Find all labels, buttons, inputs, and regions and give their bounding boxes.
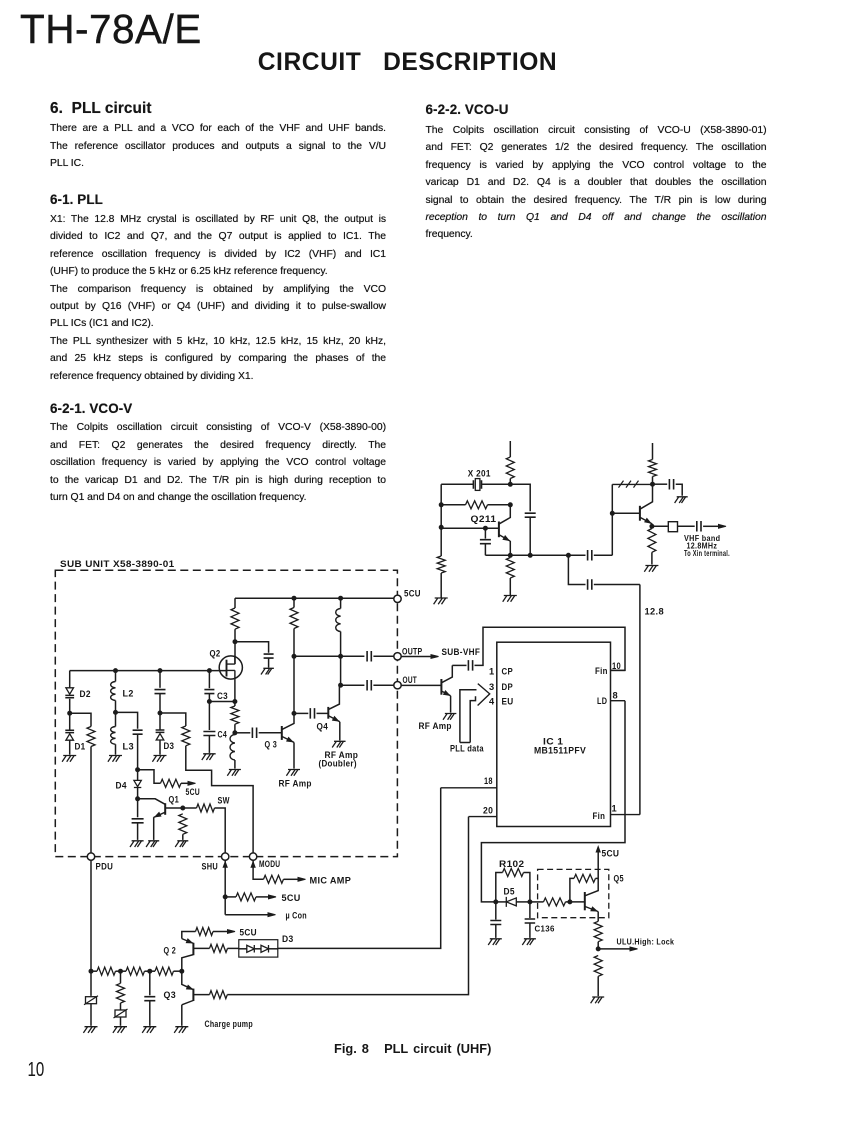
junction left rail / base wire: [439, 525, 443, 529]
wire: resistor to node A: [509, 479, 511, 485]
svg-text:OUT: OUT: [403, 675, 418, 685]
wire: cap C211 to emitter rail: [484, 544, 486, 556]
arrowhead MIC AMP: [298, 877, 306, 881]
svg-text:C136: C136: [535, 924, 556, 933]
wire: node N to R15: [120, 971, 122, 983]
wire: source to R6: [234, 702, 236, 707]
junction emitter rail / Q211: [508, 553, 512, 557]
ground (C1): [261, 668, 274, 674]
wire: emitter resistor to ground: [509, 578, 511, 595]
resistor R102: [503, 869, 524, 877]
svg-text:4: 4: [489, 696, 495, 706]
svg-text:OUTP: OUTP: [402, 646, 423, 656]
wire: C6 to ground: [137, 823, 139, 840]
pin 20 stub: [469, 816, 497, 818]
wire: Q1 emitter to ground: [153, 817, 155, 840]
diode D3a: [247, 945, 255, 953]
wire: Q2 source lead: [234, 679, 236, 701]
wire: node B to C215: [653, 483, 668, 485]
resistor R12 (loop filter): [97, 967, 115, 975]
svg-text:D4: D4: [116, 780, 128, 790]
ground (TC1): [83, 1027, 97, 1033]
junction Q5 base node: [568, 900, 572, 904]
wire: C7 to Q3 base: [259, 732, 282, 734]
wire: base node to cap C211: [484, 528, 486, 538]
wire: node H to D3: [159, 713, 161, 730]
junction feedback / collector line: [508, 503, 512, 507]
junction Q212 emitter node: [650, 524, 654, 528]
wire: node G to Q1 collector: [138, 799, 165, 804]
wire: emitter to filter bead: [652, 525, 668, 527]
wire: node F to 5CU pullup: [138, 770, 161, 784]
wire: C1 to ground: [268, 658, 270, 667]
wire: pin 18 to charge pump D3 line: [278, 788, 441, 949]
wire: R15 to TC2: [120, 1003, 122, 1010]
wire: 12.8 net vertical to IC1 Fin pin 1: [639, 585, 641, 815]
ground (Q4 emitter): [332, 741, 345, 747]
svg-text:5CU: 5CU: [240, 927, 257, 937]
wire: C9 to OUTP terminal: [373, 655, 393, 657]
wire: D4 to node G: [137, 788, 139, 799]
svg-text:L3: L3: [123, 742, 135, 752]
resistor R213 (Q211 emitter): [506, 558, 514, 579]
svg-text:D3: D3: [164, 741, 175, 751]
resistor R7 (Q3 collector load): [290, 608, 298, 629]
svg-text:To Xin terminal.: To Xin terminal.: [684, 549, 730, 558]
junction base leg / base wire: [610, 511, 614, 515]
junction Q3 collector node: [292, 711, 296, 715]
resistor R212 (X201 feedback): [466, 501, 488, 509]
transistor Q3 emitter: [282, 736, 294, 742]
svg-text:X 201: X 201: [468, 469, 491, 479]
resistor R16 (Q2cp emitter): [196, 928, 214, 936]
wire: R214 to node B: [652, 477, 654, 485]
arrowhead lock output: [630, 947, 638, 951]
transistor Q211 emitter: [499, 535, 510, 542]
transistor Q3 (charge pump) base bar: [192, 989, 194, 1001]
wire: pin 20 to charge pump Q3 line: [227, 817, 468, 995]
wire: Q6 emitter to ground: [450, 696, 452, 713]
wire: node K to C136: [529, 902, 531, 918]
svg-text:20: 20: [483, 805, 493, 815]
resistor R9 (Q5 feedback): [574, 874, 595, 882]
capacitor C4 (source bypass): [203, 732, 215, 736]
node P junction (charge pump out): [180, 969, 184, 973]
wire: Q212 collector lead: [640, 484, 653, 509]
wire: bead to C216: [678, 525, 695, 527]
resistor R3 (to 5CU): [161, 779, 182, 787]
wire: Q212 emitter lead: [651, 524, 653, 527]
capacitor C211 (base bypass): [480, 540, 491, 544]
wire: OUTP to SUB-VHF arrow: [401, 656, 431, 658]
capacitor C215 (collector bypass): [669, 479, 673, 490]
trimmer capacitor TC2: [115, 1010, 126, 1017]
capacitor C10 (OUT coupling): [367, 680, 371, 691]
wire: R20 to arrow: [284, 878, 299, 880]
svg-text:Q211: Q211: [471, 514, 497, 524]
wire: PLL data line DP: [460, 690, 477, 743]
wire: R10 to node L: [597, 942, 599, 949]
capacitor C5 (T/R switch series cap): [133, 730, 143, 734]
svg-text:Q 2: Q 2: [164, 945, 177, 955]
transistor Q1 base bar: [164, 803, 166, 815]
wire: C213 to Q212 base leg: [594, 554, 613, 556]
wire: R16 to 5CU arrow: [213, 931, 228, 933]
terminal PDU: [87, 853, 94, 860]
junction 5CU rail / OUTP branch: [292, 596, 296, 600]
wire: node H to mod resistor: [160, 713, 186, 726]
sub unit X58-3890-01 dashed enclosure: [55, 570, 397, 856]
resistor R211a body: [506, 457, 514, 478]
wire: C215 to ground leg: [676, 484, 683, 496]
svg-text:(Doubler): (Doubler): [319, 759, 357, 769]
wire: OUTP row: [294, 655, 364, 657]
wire: L4 to ground: [234, 760, 236, 769]
wire: VCO 5CU rail: [235, 597, 394, 599]
resistor R216 (Q212 emitter): [648, 529, 656, 553]
Q2cp emitter arrow (PNP): [186, 939, 192, 943]
wire: base node to SW resistor: [183, 807, 197, 809]
wire: node A to bypass cap branch: [510, 484, 530, 511]
wire: R17 to D3 box: [228, 947, 239, 949]
resistor R20 (MODU to MIC AMP): [264, 875, 284, 883]
Q1 emitter arrow: [155, 813, 161, 817]
wire: node P to Q3 emitter leg: [182, 971, 193, 989]
wire: down leg to C214 row: [568, 555, 585, 584]
capacitor C11 (coupling to Fin): [468, 660, 472, 671]
wire: gate rail to C2: [159, 671, 161, 688]
pin 1 stub to 12.8 net: [611, 814, 640, 816]
arrow into MODU terminal: [251, 862, 255, 868]
wire: R11 to ground: [597, 976, 599, 996]
Q4 emitter arrow: [333, 717, 339, 721]
capacitor C12 (lock filter): [490, 921, 501, 925]
junction 5CU rail / choke branch: [339, 596, 343, 600]
svg-text:SUB-VHF: SUB-VHF: [442, 647, 481, 657]
Q3cp emitter arrow (PNP): [187, 985, 193, 989]
junction base / cap C211: [483, 526, 487, 530]
wire: Q5 emitter lead: [597, 912, 599, 922]
page title TH-78A/E: [20, 6, 202, 53]
wire: Q211 emitter lead: [509, 541, 511, 555]
transistor Q2 (FET, VCO oscillator): [219, 656, 242, 679]
Q211 emitter arrow: [503, 536, 509, 541]
inductor L4 (source choke): [230, 735, 235, 761]
terminal OUT: [394, 682, 401, 689]
capacitor C216 (output coupling): [697, 521, 701, 532]
transistor Q5 base bar: [584, 892, 586, 910]
wire: oscillator left rail: [440, 484, 442, 556]
terminal SHU: [222, 853, 229, 860]
transistor Q4 emitter: [328, 716, 340, 722]
wire: R8 to Q5 base: [566, 901, 585, 903]
wire: D5 to node K: [516, 901, 530, 903]
node F junction (D4 anode): [136, 768, 140, 772]
diode D4 (band switch): [134, 780, 141, 787]
wire: Q3 emitter to ground: [293, 742, 295, 768]
svg-text:D1: D1: [75, 742, 86, 752]
svg-text:Q1: Q1: [169, 795, 180, 805]
wire: gate rail to L2: [115, 671, 117, 682]
wire: C136 to ground: [529, 923, 531, 938]
ferrite bead L212 (output filter): [668, 522, 677, 532]
arrow up to 5CU (Q5 collector): [596, 847, 600, 853]
node N junction: [119, 969, 123, 973]
wire: D3 internal lead 3: [269, 948, 278, 950]
inductor L5 (collector choke): [336, 609, 341, 632]
dual diode D3 enclosure: [239, 940, 278, 957]
wire: Q3cp base wire: [193, 994, 209, 996]
wire: Q211 emitter rail: [485, 554, 568, 556]
wire: OUT to RF amp base: [401, 684, 441, 686]
varicap diode D1: [65, 730, 74, 732]
wire: node I to C7: [235, 732, 250, 734]
svg-text:3: 3: [489, 682, 495, 692]
wire: C12 to ground: [495, 925, 497, 938]
svg-text:Q2: Q2: [210, 648, 221, 658]
svg-text:MODU: MODU: [259, 859, 280, 869]
wire: node K to R8: [530, 901, 544, 903]
resistor R6 (Q2 source): [231, 706, 239, 724]
svg-text:18: 18: [484, 776, 493, 786]
svg-text:8: 8: [613, 691, 619, 701]
wire: C10 to OUT terminal: [373, 684, 393, 686]
arrow to 5CU (VCO switch): [188, 781, 196, 785]
wire: PLL data bottom join: [460, 742, 470, 744]
ground (D1): [62, 756, 76, 762]
wire: PLL data line EU: [470, 696, 475, 742]
diode D3b: [261, 945, 269, 953]
svg-text:PDU: PDU: [96, 862, 114, 872]
terminal MODU: [249, 853, 256, 860]
resistor R4 (Q1 base bias): [179, 814, 187, 835]
svg-text:PLL data: PLL data: [450, 744, 484, 754]
figure caption: [334, 1041, 491, 1056]
junction gate rail / L2: [114, 669, 118, 673]
svg-text:D5: D5: [504, 887, 515, 897]
ground (L3): [108, 756, 122, 762]
wire: node E to L3: [115, 712, 117, 726]
ground (Q6 emitter): [443, 714, 456, 720]
resistor R19 (SHU to 5CU): [236, 893, 256, 901]
wire: Q212 base leg vertical: [611, 484, 613, 555]
wire: R14 to node P: [174, 970, 182, 972]
wire: bypass cap to emitter rail: [529, 517, 531, 555]
arrowhead SUB-VHF: [431, 655, 439, 659]
terminal OUTP: [394, 653, 401, 660]
wire: R3 to arrow: [181, 782, 190, 784]
wire: node O to C13: [149, 971, 151, 995]
wire: lock output arrow line: [598, 948, 630, 950]
resistor R214 (Q212 collector load): [649, 460, 657, 477]
arrowhead 5CU (SHU): [269, 895, 277, 899]
wire: Q3cp collector to ground: [181, 1005, 183, 1026]
ground (TC2): [113, 1027, 127, 1033]
wire: Q211 collector: [499, 505, 510, 524]
wire: D3 internal lead 1: [239, 948, 247, 950]
junction bypass cap / emitter rail: [528, 553, 532, 557]
junction left rail / feedback resistor: [439, 503, 443, 507]
svg-text:10: 10: [612, 661, 621, 671]
resistor R211b (left rail to ground): [437, 556, 445, 573]
resistor R215 (feedback, slash style): [612, 483, 652, 485]
arrow to Xin terminal: [719, 524, 727, 528]
Q5 emitter arrow: [591, 907, 597, 911]
ground (R4): [175, 841, 188, 847]
node E junction (L2/L3): [114, 710, 118, 714]
wire: 5CU rail to choke L5: [340, 598, 342, 608]
pin 10 stub: [611, 669, 626, 671]
transistor Q211 base bar: [498, 522, 500, 538]
node J junction (D5 anode): [494, 900, 498, 904]
wire: D2 to node D: [69, 699, 71, 713]
capacitor C9 (OUTP coupling): [367, 651, 371, 662]
wire: L3 to ground: [115, 744, 117, 754]
resistor R17 (Q2cp base): [210, 944, 228, 952]
node I junction (source choke): [233, 731, 237, 735]
wire: R12 left lead: [91, 970, 97, 972]
wire: C2 to node H: [159, 694, 161, 713]
Q5 dashed enclosure: [538, 869, 609, 917]
transistor Q212 emitter: [640, 517, 652, 524]
wire: Q5 collector lead: [585, 850, 598, 896]
junction gate rail / D3 branch: [158, 669, 162, 673]
wire: Q1 base wire: [165, 807, 183, 809]
arrowhead uCon: [268, 913, 276, 917]
ground (Q3cp): [174, 1027, 188, 1033]
ground (Q3 emitter): [286, 770, 300, 776]
wire: Q4 emitter to ground: [339, 722, 341, 741]
svg-text:RF Amp: RF Amp: [419, 721, 452, 731]
wire: R13 to node O: [145, 970, 150, 972]
svg-text:5CU: 5CU: [404, 589, 421, 599]
junction gate rail / C3: [207, 669, 211, 673]
wire: C214 to 12.8 line corner: [594, 584, 640, 586]
capacitor C6 (Q1 collector bypass): [132, 819, 144, 823]
capacitor C136: [525, 919, 536, 923]
ground (D3): [152, 756, 166, 762]
wire: feedback resistor left lead: [441, 504, 465, 506]
wire: C3 to source rail: [208, 694, 210, 702]
capacitor C3 (feedback): [204, 690, 214, 694]
wire: C13 to ground: [149, 1001, 151, 1026]
svg-text:Q5: Q5: [614, 873, 624, 883]
wire: Q2cp base wire: [193, 947, 209, 949]
transistor Q3 base bar: [281, 726, 283, 740]
node O junction: [148, 969, 152, 973]
wire: R5 staircase to MODU: [186, 746, 253, 853]
transistor Q212 base bar: [639, 506, 641, 521]
varicap diode D2: [66, 688, 74, 694]
junction OUTP row / choke line: [339, 654, 343, 658]
ground (C4): [202, 754, 216, 760]
wire: PDU line to loop filter rail: [90, 860, 92, 971]
junction source rail / Q2 source: [233, 700, 237, 704]
node D junction (D1/D2): [68, 711, 72, 715]
transistor Q2cp emitter: [182, 939, 194, 944]
wire: C8 to Q4 base: [317, 712, 329, 714]
wire: C11 to Fin pin 10 loop: [475, 627, 626, 670]
node C junction (Q2 drain): [233, 640, 237, 644]
wire: feedback resistor right lead: [488, 504, 511, 506]
ground (Q212 emitter): [644, 566, 658, 572]
Q212 emitter arrow: [645, 518, 651, 523]
resistor SW (Q1 base from SHU): [197, 804, 215, 812]
capacitor C8 (coupling to Q4): [310, 708, 314, 719]
wire: Q2cp emitter to 5CU resistor: [182, 932, 196, 939]
wire: collector node to C8: [294, 712, 308, 714]
capacitor C212 (collector bypass): [525, 513, 536, 517]
wire: base node up to R9: [570, 878, 574, 902]
svg-text:5CU: 5CU: [186, 787, 201, 797]
wire: node D to D1: [69, 713, 71, 730]
transistor Q4 base bar: [327, 707, 329, 719]
wire: Q2 gate rail: [70, 670, 227, 672]
svg-text:Fin: Fin: [595, 666, 608, 676]
svg-text:CP: CP: [502, 667, 514, 677]
resistor R14 (loop filter): [155, 967, 173, 975]
wire: Q211 base row: [441, 527, 499, 529]
resistor R13 (loop filter): [126, 967, 144, 975]
capacitor C214 (12.8MHz takeoff): [588, 579, 592, 590]
wire: node C to drain bypass cap: [235, 642, 269, 653]
heading CIRCUIT DESCRIPTION: [0, 49, 815, 77]
wire: trimmer to ground: [90, 1004, 92, 1026]
wire: Q6 collector to C11: [452, 664, 466, 666]
node A junction (510,484): [508, 482, 512, 486]
Q3 emitter arrow: [287, 737, 293, 741]
ground (C13): [142, 1027, 156, 1033]
wire: R216 to ground: [651, 552, 653, 564]
pin 18 stub: [441, 787, 497, 789]
varicap diode D3: [156, 730, 165, 732]
wire: R19 to arrow: [256, 896, 269, 898]
wire: D1 to ground: [69, 740, 71, 755]
IC U1 (IC1 MB1511PFV) body: [497, 642, 611, 826]
svg-text:Fin: Fin: [593, 811, 606, 821]
svg-text:L2: L2: [123, 688, 134, 698]
ground (Q211 emitter): [503, 596, 517, 602]
svg-text:SW: SW: [218, 796, 230, 806]
wire: MODU line down: [253, 860, 263, 879]
svg-text:Q 3: Q 3: [265, 739, 278, 749]
node K junction (D5 cathode): [528, 900, 532, 904]
svg-text:R102: R102: [499, 859, 524, 869]
svg-text:RF Amp: RF Amp: [279, 778, 312, 788]
svg-text:DP: DP: [502, 682, 514, 692]
resistor R2 (PDU tuning feed): [87, 727, 95, 747]
wire: Q212 base wire: [612, 512, 640, 514]
svg-text:Q4: Q4: [317, 721, 329, 731]
wire: SHU to uCon arrow: [225, 914, 268, 916]
node L junction (lock output): [596, 947, 600, 951]
svg-text:SUB UNIT X58-3890-01: SUB UNIT X58-3890-01: [60, 559, 175, 569]
junction SHU / 5CU resistor: [223, 895, 227, 899]
ground (C12): [488, 939, 502, 945]
wire: node E to C5 branch: [116, 712, 138, 728]
svg-text:5CU: 5CU: [602, 848, 620, 858]
wire: Q2 source rail: [209, 701, 235, 703]
junction OUTP row / R7: [292, 654, 296, 658]
resistor R18 (Q3cp base): [210, 991, 228, 999]
wire: 5CU rail to R7: [293, 598, 295, 607]
transistor Q6 (RF amp to Fin) base bar: [440, 679, 442, 695]
svg-text:C3: C3: [217, 691, 228, 701]
svg-text:D3: D3: [282, 934, 294, 944]
capacitor C7 (coupling to Q3): [252, 728, 256, 739]
resistor R10 (Q5 emitter): [594, 921, 602, 941]
wire: drain resistor to node C: [234, 629, 236, 642]
